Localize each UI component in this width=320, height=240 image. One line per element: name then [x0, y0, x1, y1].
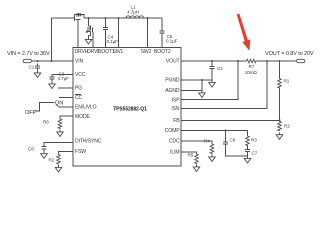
svg-text:C1: C1 — [29, 65, 35, 70]
svg-text:C2: C2 — [217, 66, 223, 71]
wire DITH/SYNC to C8 — [44, 142, 73, 144]
wire ISP — [181, 61, 238, 100]
svg-text:ISP: ISP — [172, 97, 181, 103]
capacitor C6 — [225, 130, 227, 142]
node VIN/riser junction — [51, 60, 53, 62]
svg-text:R6: R6 — [43, 120, 49, 125]
svg-text:COMP: COMP — [165, 128, 181, 134]
svg-text:R2: R2 — [49, 158, 55, 163]
capacitor C3 4.7uF — [49, 75, 54, 82]
node ISP tap on rail — [237, 60, 239, 62]
transistor Q1 (buck high-side FET) — [73, 13, 84, 22]
ground under C2/PGND — [209, 80, 216, 87]
wire top rail — [52, 17, 163, 19]
resistor R4 — [210, 143, 214, 154]
node C2 junction — [211, 60, 213, 62]
ground under Q2 — [85, 37, 92, 44]
wire ILIM to R5 — [181, 152, 197, 153]
capacitor C1 — [35, 64, 40, 71]
resistor R2 — [57, 154, 61, 165]
capacitor C5 (BOOT2) — [161, 18, 163, 31]
wire DRVH gate — [77, 22, 79, 48]
wire AGND — [181, 90, 202, 92]
wire PGND — [181, 79, 212, 81]
svg-text:FSW: FSW — [75, 149, 86, 155]
svg-text:R2: R2 — [284, 123, 290, 128]
svg-text:AGND: AGND — [165, 88, 180, 94]
resistor R3 — [246, 135, 250, 146]
IC U1 TPS552882-Q1 — [73, 48, 181, 167]
svg-text:0.1µF: 0.1µF — [107, 39, 119, 44]
ground AGND — [199, 91, 206, 98]
resistor R5 — [195, 153, 199, 164]
svg-text:MODE: MODE — [75, 114, 91, 120]
body diode Q1 — [80, 13, 83, 16]
wire SW1 — [118, 18, 120, 48]
capacitor C4 (BOOT1) — [105, 18, 107, 27]
svg-text:CDC: CDC — [169, 139, 180, 145]
svg-text:SW1: SW1 — [112, 49, 123, 55]
node COMP/C6 junction — [225, 129, 227, 131]
svg-text:VIN = 2.7V to 36V: VIN = 2.7V to 36V — [7, 51, 50, 57]
svg-text:R3: R3 — [251, 138, 257, 143]
wire FSW to R2 — [59, 152, 74, 154]
wire FB — [181, 119, 280, 121]
node FB divider junction — [279, 119, 281, 121]
svg-text:R7: R7 — [249, 64, 255, 69]
ground under R5 — [193, 165, 200, 172]
node ISN tap on rail — [266, 60, 268, 62]
svg-text:4.7µF: 4.7µF — [58, 76, 70, 81]
svg-text:R5: R5 — [188, 153, 194, 158]
resistor R1 — [279, 61, 281, 78]
wire VOUT rail — [181, 60, 297, 62]
wire SW2 — [147, 18, 149, 48]
node divider top on rail — [279, 60, 281, 62]
svg-text:VOUT = 0.8V to 20V: VOUT = 0.8V to 20V — [265, 51, 314, 57]
wire PG stub — [58, 87, 73, 89]
svg-text:L1: L1 — [131, 4, 136, 9]
capacitor C2 — [211, 61, 213, 66]
wire CC stub — [59, 96, 73, 98]
transistor Q2 (buck low-side FET) — [87, 18, 93, 48]
svg-text:PG: PG — [75, 86, 82, 92]
svg-text:R4: R4 — [204, 138, 210, 143]
svg-text:SW2: SW2 — [141, 49, 152, 55]
resistor R2 (output divider) — [278, 120, 282, 131]
svg-text:ON: ON — [55, 100, 63, 106]
svg-text:R1: R1 — [284, 79, 290, 84]
svg-text:BOOT2: BOOT2 — [154, 49, 171, 55]
wire VIN riser to top rail — [51, 18, 53, 61]
capacitor C8 — [41, 144, 46, 151]
svg-text:C7: C7 — [252, 151, 258, 156]
svg-text:C6: C6 — [230, 138, 236, 143]
wire ISN — [181, 61, 267, 109]
wire COMP — [181, 130, 248, 135]
ground under R3/C7/C6 — [244, 156, 251, 163]
ground under C3 — [49, 82, 56, 89]
svg-text:FB: FB — [173, 118, 180, 124]
svg-text:VCC: VCC — [75, 72, 86, 78]
wire VIN terminal to IC VIN pin — [32, 60, 74, 62]
svg-text:TPS552882-Q1: TPS552882-Q1 — [113, 107, 147, 113]
red annotation arrow pointing at R7 — [237, 14, 251, 51]
resistor R7 10mOhm (horizontal) — [246, 59, 259, 63]
wire CDC to R4 — [181, 141, 212, 143]
svg-text:10mΩ: 10mΩ — [245, 70, 258, 75]
svg-text:0.1µF: 0.1µF — [166, 38, 178, 43]
capacitor C7 — [247, 146, 249, 149]
svg-text:C8: C8 — [28, 147, 34, 152]
wire EN/UVLO — [59, 106, 73, 108]
body diode Q2 — [86, 30, 89, 33]
node VIN/C1 junction — [37, 60, 39, 62]
svg-text:PGND: PGND — [165, 78, 180, 84]
ground under R4 — [209, 155, 216, 162]
ground under R2 divider — [276, 132, 283, 139]
svg-text:DITH/SYNC: DITH/SYNC — [75, 138, 102, 144]
ground under C1 — [34, 71, 41, 78]
svg-text:ILIM: ILIM — [170, 150, 179, 156]
svg-text:EN/UVLO: EN/UVLO — [75, 105, 97, 111]
output terminal VOUT — [297, 59, 306, 62]
wire VCC to C3 — [52, 74, 73, 76]
node PGND/AGND junction — [201, 79, 203, 81]
wire MODE to R6 — [60, 116, 73, 118]
input terminal VIN — [23, 59, 32, 62]
ground under R2 — [55, 165, 62, 172]
ground under C8 — [41, 151, 48, 158]
ground under R6 — [57, 130, 64, 137]
svg-text:VIN: VIN — [75, 59, 84, 65]
inductor L1 — [126, 16, 144, 18]
svg-text:4.7µH: 4.7µH — [127, 10, 139, 15]
node Q2 drain on rail — [88, 17, 90, 19]
svg-text:ISN: ISN — [171, 106, 180, 112]
svg-text:CC: CC — [75, 95, 83, 101]
resistor R6 — [58, 118, 62, 129]
svg-text:VOUT: VOUT — [166, 59, 180, 65]
